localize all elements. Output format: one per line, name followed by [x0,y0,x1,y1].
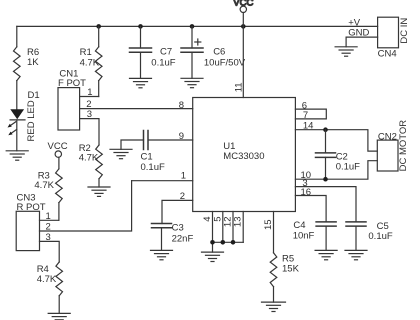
svg-text:0.1uF: 0.1uF [151,58,175,69]
ground under C1 [110,149,132,158]
svg-text:R POT: R POT [17,202,46,213]
svg-text:C3: C3 [172,223,184,234]
ground under C4 [315,250,337,259]
svg-text:8: 8 [179,100,184,111]
node junction bus pin5 [221,240,226,245]
svg-text:VCC: VCC [233,0,253,9]
wire U1 pin14 to CN2 [295,130,377,151]
capacitor C3 [152,223,194,251]
node junction bus pin12 [231,240,236,245]
svg-text:1: 1 [46,211,51,222]
svg-text:C1: C1 [141,152,153,163]
ground under C6 [181,78,203,87]
node junction C6/rail [190,24,195,29]
svg-text:DC MOTOR: DC MOTOR [398,120,409,172]
capacitor C6 (electrolytic) [181,26,246,78]
op-amp U1 MC33030 [193,98,296,212]
svg-text:4.7K: 4.7K [37,274,57,285]
resistor R4 [37,262,63,313]
svg-text:CN2: CN2 [378,132,397,143]
ground under D1 [6,151,28,160]
connector CN4 DC IN [348,17,410,59]
capacitor C7 [130,26,176,78]
svg-text:C6: C6 [213,47,225,58]
resistor R1 [80,26,102,96]
svg-text:13: 13 [233,217,244,228]
wire CN1 pin3 to R2 [80,119,99,145]
wire U1 pin15 to R5 [273,212,275,253]
ground under C3 [151,250,173,259]
svg-text:0.1uF: 0.1uF [368,231,392,242]
node junction C2/pin14 [323,127,328,132]
wire U1 pin16 to C4 [295,196,326,222]
resistor R5 [270,253,299,302]
wire CN1 pin2 to U1 pin8 [80,108,193,110]
svg-text:DC IN: DC IN [399,18,410,44]
svg-text:1: 1 [181,170,186,181]
svg-text:1K: 1K [27,57,39,68]
capacitor C2 [316,130,361,180]
resistor R3 [34,169,62,221]
wire U1 pin10 to CN2 [295,161,377,180]
svg-text:16: 16 [301,187,312,198]
svg-text:10uF/50V: 10uF/50V [204,58,246,69]
ground under R4 [48,313,70,319]
svg-text:22nF: 22nF [172,234,194,245]
svg-text:4.7K: 4.7K [80,58,100,69]
connector CN1 F POT [58,68,86,130]
wire U1 pin3 to C5 [295,187,356,222]
node junction VCC/pin11 [241,24,246,29]
svg-text:10nF: 10nF [293,230,315,241]
ground CN4 [335,47,357,56]
connector CN3 R POT [16,193,46,251]
svg-text:15: 15 [263,219,274,230]
wire U1 pins 4,5,12,13 to ground bus [213,212,244,253]
node junction C7/rail [138,24,143,29]
wire CN3 pin3 to R4 [40,241,60,262]
svg-text:D1: D1 [28,90,40,101]
ground under C7 [130,78,152,87]
svg-text:F POT: F POT [58,78,86,89]
svg-text:4.7K: 4.7K [34,180,54,191]
svg-text:0.1uF: 0.1uF [336,161,360,172]
svg-text:C7: C7 [160,47,172,58]
svg-text:2: 2 [180,191,185,202]
wire U1 pin11 from VCC rail [242,26,244,97]
wire U1 pin1 [132,180,193,182]
svg-text:11: 11 [233,82,244,92]
capacitor C4 [293,220,336,250]
diode D1 red LED [8,90,40,151]
svg-text:14: 14 [303,120,314,131]
ground under pin bus [202,252,224,261]
svg-text:3: 3 [87,109,92,120]
svg-text:VCC: VCC [48,141,68,152]
wire CN1 pin1 to R1 [80,96,99,98]
wire top VCC rail [17,25,378,27]
ground under C5 [345,250,367,259]
capacitor C1 [121,131,193,174]
ground under R2 [88,187,110,196]
svg-text:15K: 15K [282,264,300,275]
svg-text:RED LED: RED LED [26,100,37,141]
resistor R2 [79,143,103,187]
node junction C2/pin10 [323,177,328,182]
connector CN2 DC MOTOR [377,120,409,172]
svg-text:2: 2 [86,99,91,110]
wire CN4 GND [346,37,378,47]
power VCC (left) [48,141,68,169]
capacitor C5 [346,221,393,251]
wire U1 pins 6-7 jumper [295,109,326,119]
svg-text:9: 9 [179,131,184,142]
resistor R6 [13,26,39,109]
svg-text:0.1uF: 0.1uF [141,162,165,173]
svg-text:1: 1 [87,87,92,98]
wire U1 pin2 to C3 [162,200,193,223]
ground under R5 [262,302,286,311]
node junction bus pin4 [210,240,215,245]
wire CN3 pin2 to U1 pin1 [40,181,132,231]
svg-text:CN4: CN4 [378,48,397,59]
power VCC (top) [233,0,253,26]
wire CN3 pin1 to R3 [40,219,59,221]
node junction R1/rail [96,24,101,29]
svg-text:3: 3 [46,232,51,243]
svg-text:MC33030: MC33030 [223,151,264,162]
svg-text:4.7K: 4.7K [79,153,99,164]
